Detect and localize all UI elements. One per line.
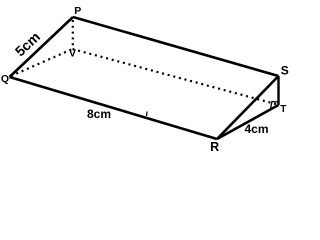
wire: edge Q-R (8cm bottom edge) [10,77,218,139]
svg-text:S: S [281,64,289,78]
svg-text:R: R [210,140,219,154]
wire: hidden edge V-T (dotted) [73,49,278,105]
svg-text:V: V [69,48,76,60]
svg-text:P: P [74,5,81,17]
svg-text:5cm: 5cm [12,29,43,60]
wire: edge R-T (4cm) [217,105,279,139]
wire: hidden edge Q-V (dotted) [11,49,73,76]
svg-text:Q: Q [1,73,9,85]
tick mark on Q-R edge [146,112,148,117]
wire: hidden edge P-V (dotted vertical) [72,20,74,47]
wire: edge R-S [217,76,279,139]
svg-text:T: T [280,104,286,115]
svg-text:8cm: 8cm [87,107,111,121]
svg-text:4cm: 4cm [244,122,268,136]
wire: edge S-T (vertical right edge) [277,76,279,105]
wire: edge Q-P (5cm side) [10,17,74,77]
wire: edge P-S (top long edge) [73,17,279,76]
right-angle mark at T [271,102,279,109]
